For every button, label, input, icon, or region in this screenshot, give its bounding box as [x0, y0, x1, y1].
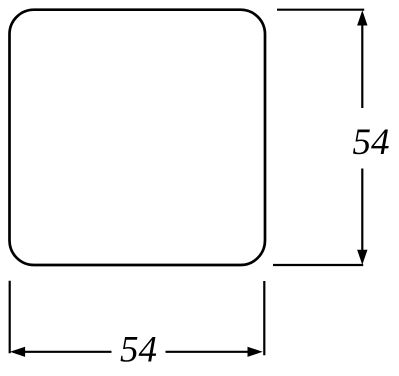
arrowhead left — [10, 347, 25, 357]
extension line bottom right vertical — [263, 281, 265, 355]
extension line top right — [277, 9, 364, 11]
extension line bottom right horizontal — [273, 264, 363, 266]
cover plate outline 54x54 — [10, 10, 266, 265]
svg-text:54: 54 — [353, 122, 390, 163]
vertical dimension line upper segment — [361, 24, 363, 108]
arrowhead right — [248, 347, 263, 357]
arrowhead down — [357, 250, 367, 265]
horizontal dimension line left segment — [24, 351, 112, 353]
arrowhead up — [357, 10, 367, 25]
svg-text:54: 54 — [120, 330, 157, 371]
vertical dimension line lower segment — [361, 169, 363, 252]
horizontal dimension line right segment — [166, 351, 248, 353]
extension line bottom left vertical — [9, 281, 11, 354]
